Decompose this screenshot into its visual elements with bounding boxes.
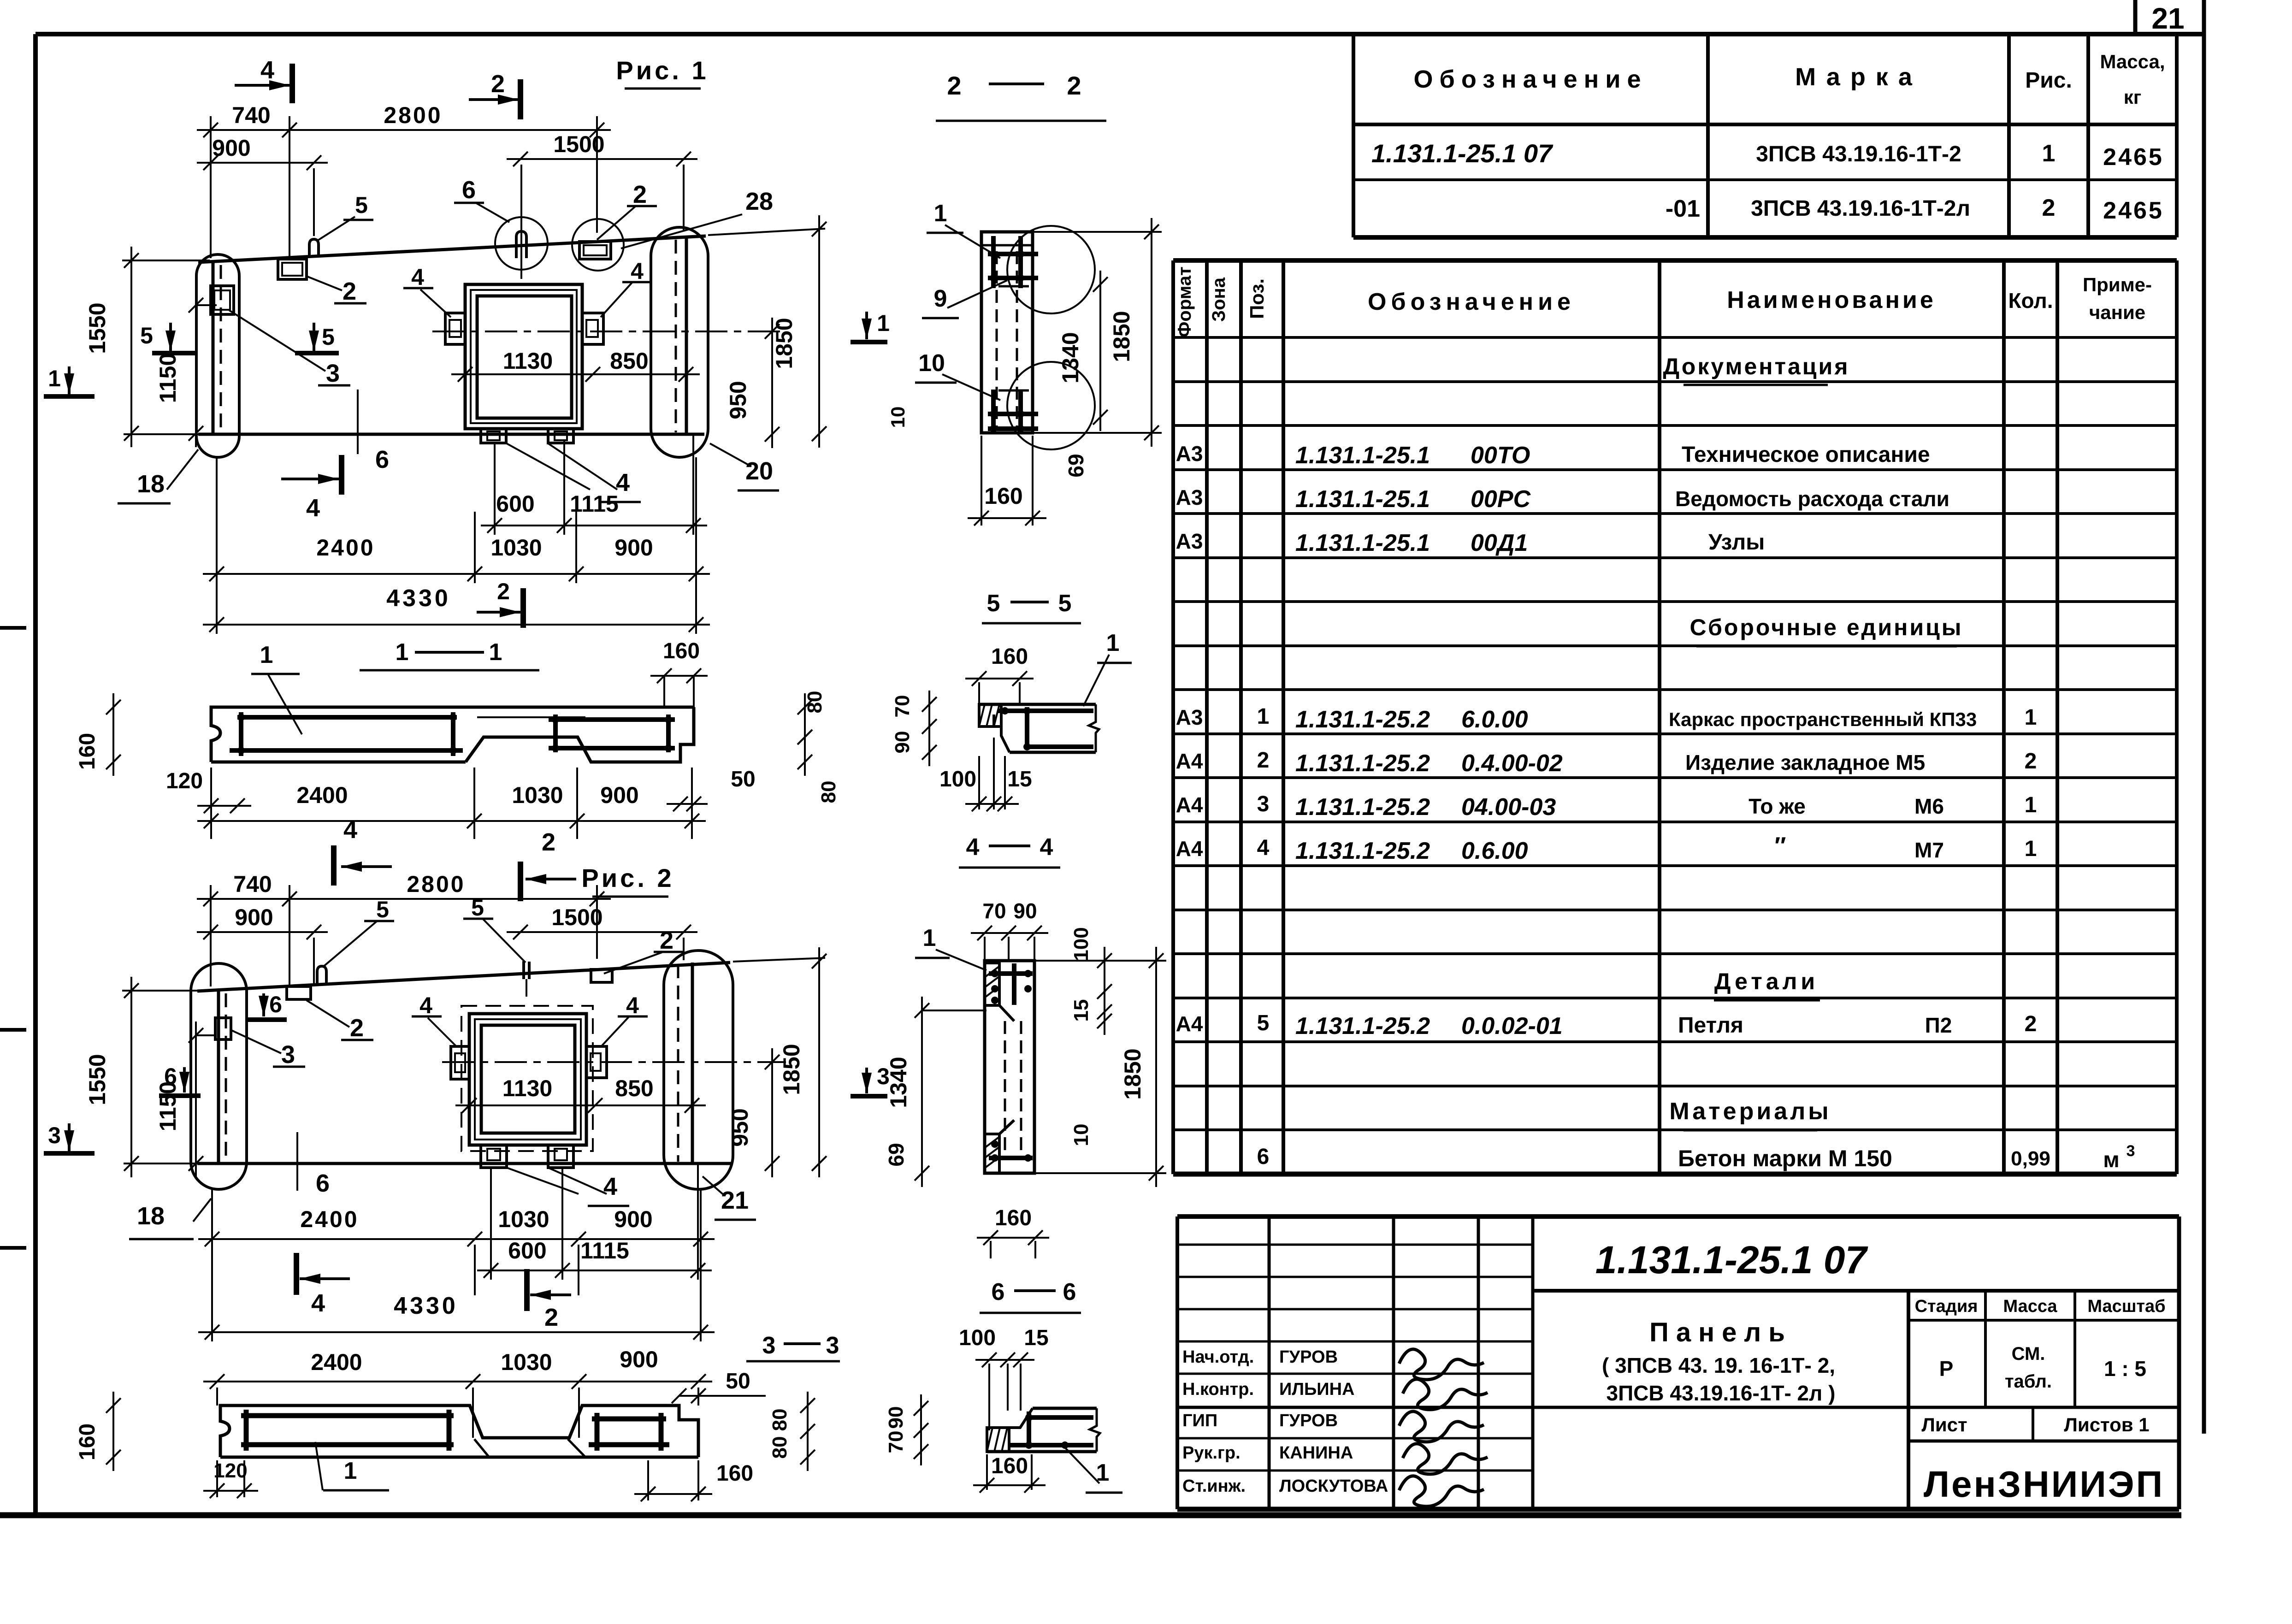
svg-text:Масса: Масса xyxy=(2003,1297,2057,1316)
svg-text:4: 4 xyxy=(411,264,424,290)
svg-text:15: 15 xyxy=(1007,767,1032,791)
svg-text:2: 2 xyxy=(2025,749,2037,774)
svg-text:кг: кг xyxy=(2124,86,2142,108)
svg-text:6: 6 xyxy=(462,176,476,204)
svg-text:6: 6 xyxy=(269,992,282,1017)
svg-text:1: 1 xyxy=(260,642,273,668)
svg-text:0.6.00: 0.6.00 xyxy=(1461,838,1528,864)
svg-text:90: 90 xyxy=(885,1406,907,1429)
svg-text:Документация: Документация xyxy=(1663,354,1850,379)
svg-text:3: 3 xyxy=(877,1063,890,1089)
svg-text:А3: А3 xyxy=(1176,529,1203,553)
svg-text:100: 100 xyxy=(1070,927,1093,961)
svg-text:2400: 2400 xyxy=(316,535,375,561)
svg-text:900: 900 xyxy=(600,782,638,808)
svg-text:160: 160 xyxy=(991,1454,1028,1478)
svg-text:600: 600 xyxy=(496,491,534,517)
svg-text:ЛенЗНИИЭП: ЛенЗНИИЭП xyxy=(1924,1464,2164,1505)
svg-text:А4: А4 xyxy=(1176,793,1203,817)
svg-text:Рис. 2: Рис. 2 xyxy=(581,863,674,892)
svg-text:3: 3 xyxy=(1257,792,1270,816)
svg-text:6.0.00: 6.0.00 xyxy=(1461,706,1528,733)
svg-text:СМ.: СМ. xyxy=(2012,1344,2045,1364)
svg-text:0.0.02-01: 0.0.02-01 xyxy=(1461,1013,1563,1039)
svg-text:69: 69 xyxy=(1064,454,1088,477)
svg-text:4330: 4330 xyxy=(394,1293,458,1319)
svg-text:М6: М6 xyxy=(1914,794,1944,818)
svg-text:1850: 1850 xyxy=(1109,311,1134,362)
svg-text:1.131.1-25.1: 1.131.1-25.1 xyxy=(1295,442,1430,469)
svg-text:160: 160 xyxy=(991,644,1028,669)
svg-text:То же: То же xyxy=(1749,794,1806,818)
svg-text:50: 50 xyxy=(731,767,755,791)
svg-text:18: 18 xyxy=(137,470,165,498)
svg-text:1850: 1850 xyxy=(1120,1048,1146,1099)
svg-text:1550: 1550 xyxy=(84,1054,110,1105)
svg-text:1850: 1850 xyxy=(771,318,797,369)
svg-text:Ведомость расхода стали: Ведомость расхода стали xyxy=(1675,487,1949,511)
svg-text:1: 1 xyxy=(2025,837,2037,861)
svg-text:740: 740 xyxy=(233,871,272,897)
svg-text:70: 70 xyxy=(982,899,1006,923)
svg-text:6: 6 xyxy=(992,1279,1005,1305)
svg-text:3: 3 xyxy=(826,1332,839,1359)
svg-text:1: 1 xyxy=(489,639,502,666)
svg-text:1550: 1550 xyxy=(84,302,110,354)
svg-text:1850: 1850 xyxy=(779,1044,804,1095)
svg-text:2: 2 xyxy=(544,1304,558,1331)
svg-text:160: 160 xyxy=(716,1461,753,1486)
svg-text:1.131.1-25.2: 1.131.1-25.2 xyxy=(1295,706,1430,733)
svg-text:Детали: Детали xyxy=(1714,968,1819,994)
svg-text:80: 80 xyxy=(768,1436,791,1459)
svg-text:( 3ПСВ 43. 19. 16-1Т- 2,: ( 3ПСВ 43. 19. 16-1Т- 2, xyxy=(1602,1353,1835,1377)
svg-text:1: 1 xyxy=(2025,705,2037,730)
svg-text:ИЛЬИНА: ИЛЬИНА xyxy=(1279,1380,1355,1399)
svg-text:1030: 1030 xyxy=(501,1349,552,1375)
svg-text:2: 2 xyxy=(491,70,505,98)
svg-text:10: 10 xyxy=(918,350,945,377)
svg-text:4: 4 xyxy=(631,258,644,284)
svg-text:3: 3 xyxy=(762,1332,776,1359)
svg-text:Ст.инж.: Ст.инж. xyxy=(1182,1476,1246,1496)
svg-text:18: 18 xyxy=(137,1202,165,1230)
svg-text:100: 100 xyxy=(959,1326,996,1350)
svg-text:ГУРОВ: ГУРОВ xyxy=(1279,1347,1338,1367)
svg-text:1.131.1-25.2: 1.131.1-25.2 xyxy=(1295,750,1430,777)
svg-text:740: 740 xyxy=(232,102,270,128)
svg-text:Петля: Петля xyxy=(1678,1013,1743,1038)
svg-text:4: 4 xyxy=(311,1289,325,1317)
svg-text:Нач.отд.: Нач.отд. xyxy=(1182,1347,1254,1367)
svg-text:69: 69 xyxy=(884,1143,908,1166)
svg-text:чание: чание xyxy=(2089,301,2145,323)
svg-text:Материалы: Материалы xyxy=(1669,1098,1831,1125)
svg-text:4: 4 xyxy=(419,992,432,1018)
svg-text:Узлы: Узлы xyxy=(1708,530,1765,555)
svg-text:90: 90 xyxy=(1013,899,1037,923)
svg-text:Сборочные единицы: Сборочные единицы xyxy=(1690,614,1963,640)
svg-text:4: 4 xyxy=(616,469,630,496)
svg-text:1.131.1-25.1 07: 1.131.1-25.1 07 xyxy=(1371,139,1554,168)
svg-text:950: 950 xyxy=(727,1108,753,1146)
svg-text:1.131.1-25.2: 1.131.1-25.2 xyxy=(1295,794,1430,821)
svg-text:21: 21 xyxy=(2151,2,2184,35)
svg-text:0.4.00-02: 0.4.00-02 xyxy=(1461,750,1563,777)
svg-text:3: 3 xyxy=(2127,1142,2135,1160)
svg-text:00Д1: 00Д1 xyxy=(1471,530,1528,556)
svg-text:Наименование: Наименование xyxy=(1727,287,1936,313)
svg-text:ГИП: ГИП xyxy=(1182,1411,1217,1430)
svg-text:2: 2 xyxy=(660,927,673,954)
svg-text:2465: 2465 xyxy=(2103,197,2164,224)
svg-text:Изделие закладное М5: Изделие закладное М5 xyxy=(1685,750,1925,774)
svg-text:1.131.1-25.1: 1.131.1-25.1 xyxy=(1295,486,1430,513)
svg-text:10: 10 xyxy=(1070,1124,1093,1146)
svg-text:3: 3 xyxy=(281,1041,295,1069)
svg-text:6: 6 xyxy=(375,446,389,473)
svg-text:2465: 2465 xyxy=(2103,144,2164,171)
svg-text:3: 3 xyxy=(48,1122,61,1148)
svg-text:Рук.гр.: Рук.гр. xyxy=(1182,1443,1241,1463)
svg-text:Масса,: Масса, xyxy=(2100,51,2165,72)
svg-text:1500: 1500 xyxy=(553,131,604,157)
svg-text:04.00-03: 04.00-03 xyxy=(1461,794,1556,821)
svg-text:Приме-: Приме- xyxy=(2083,274,2152,295)
svg-text:1130: 1130 xyxy=(502,1075,552,1101)
svg-text:Рис. 1: Рис. 1 xyxy=(616,56,709,85)
svg-text:КАНИНА: КАНИНА xyxy=(1279,1443,1353,1463)
svg-text:А4: А4 xyxy=(1176,837,1203,861)
svg-text:1: 1 xyxy=(396,639,409,666)
svg-text:1 : 5: 1 : 5 xyxy=(2104,1357,2146,1381)
svg-text:1150: 1150 xyxy=(155,353,181,403)
svg-text:Каркас пространственный КП33: Каркас пространственный КП33 xyxy=(1669,709,1977,730)
svg-text:600: 600 xyxy=(508,1238,546,1264)
svg-text:3: 3 xyxy=(326,360,340,387)
svg-text:Стадия: Стадия xyxy=(1915,1297,1978,1316)
svg-text:2400: 2400 xyxy=(311,1349,362,1375)
svg-text:5: 5 xyxy=(376,897,389,922)
svg-text:80: 80 xyxy=(803,691,826,714)
svg-text:2: 2 xyxy=(947,71,961,100)
svg-text:А4: А4 xyxy=(1176,1012,1203,1036)
svg-text:2: 2 xyxy=(343,278,356,305)
svg-text:1030: 1030 xyxy=(498,1206,549,1232)
svg-text:4: 4 xyxy=(1040,834,1053,861)
svg-text:15: 15 xyxy=(1024,1326,1048,1350)
svg-text:70: 70 xyxy=(885,1431,907,1453)
svg-text:3ПСВ 43.19.16-1Т-2л: 3ПСВ 43.19.16-1Т-2л xyxy=(1751,196,1970,221)
svg-text:Рис.: Рис. xyxy=(2025,68,2072,93)
svg-text:160: 160 xyxy=(75,1423,100,1460)
svg-text:1.131.1-25.1 07: 1.131.1-25.1 07 xyxy=(1595,1238,1868,1281)
svg-text:5: 5 xyxy=(140,323,153,348)
svg-text:Р: Р xyxy=(1939,1357,1954,1381)
svg-text:1.131.1-25.1: 1.131.1-25.1 xyxy=(1295,530,1430,556)
svg-text:900: 900 xyxy=(620,1346,658,1372)
svg-text:Лист: Лист xyxy=(1921,1414,1967,1435)
svg-text:4: 4 xyxy=(603,1173,617,1200)
svg-text:2: 2 xyxy=(350,1014,364,1042)
svg-text:70: 70 xyxy=(891,695,914,718)
svg-text:2: 2 xyxy=(542,828,555,856)
svg-text:м: м xyxy=(2103,1148,2120,1172)
svg-text:1: 1 xyxy=(2025,793,2037,817)
svg-text:П2: П2 xyxy=(1925,1013,1952,1037)
svg-text:Кол.: Кол. xyxy=(2008,289,2053,313)
svg-text:Листов 1: Листов 1 xyxy=(2064,1414,2149,1435)
svg-text:А3: А3 xyxy=(1176,705,1203,729)
svg-text:900: 900 xyxy=(212,135,250,161)
svg-text:160: 160 xyxy=(663,639,700,663)
svg-text:4330: 4330 xyxy=(386,585,451,612)
svg-text:3ПСВ 43.19.16-1Т- 2л ): 3ПСВ 43.19.16-1Т- 2л ) xyxy=(1607,1381,1836,1405)
svg-text:Поз.: Поз. xyxy=(1246,278,1268,319)
svg-text:50: 50 xyxy=(726,1369,750,1394)
svg-text:Формат: Формат xyxy=(1175,266,1195,337)
svg-text:2: 2 xyxy=(2025,1012,2037,1036)
svg-text:2400: 2400 xyxy=(296,782,348,808)
svg-text:1030: 1030 xyxy=(512,782,563,808)
svg-text:4: 4 xyxy=(966,834,980,861)
svg-text:100: 100 xyxy=(939,767,976,791)
svg-text:160: 160 xyxy=(984,483,1022,509)
svg-text:2: 2 xyxy=(1257,748,1270,773)
svg-text:90: 90 xyxy=(891,731,914,754)
svg-text:5: 5 xyxy=(355,192,368,218)
svg-text:Бетон марки М 150: Бетон марки М 150 xyxy=(1678,1146,1892,1171)
svg-text:2800: 2800 xyxy=(384,102,442,128)
svg-text:21: 21 xyxy=(721,1187,749,1214)
svg-text:2800: 2800 xyxy=(407,871,465,897)
svg-text:2: 2 xyxy=(1067,71,1081,100)
svg-text:Панель: Панель xyxy=(1649,1317,1792,1347)
svg-text:1115: 1115 xyxy=(580,1238,629,1264)
svg-text:4: 4 xyxy=(260,56,274,84)
svg-text:10: 10 xyxy=(887,407,909,428)
svg-text:1: 1 xyxy=(2042,140,2056,167)
svg-text:табл.: табл. xyxy=(2005,1371,2052,1392)
svg-text:6: 6 xyxy=(1063,1279,1076,1305)
svg-text:1: 1 xyxy=(1106,630,1120,656)
svg-text:5: 5 xyxy=(471,895,484,921)
svg-text:Техническое описание: Техническое описание xyxy=(1682,443,1930,467)
svg-text:Марка: Марка xyxy=(1795,63,1922,91)
svg-text:Н.контр.: Н.контр. xyxy=(1182,1380,1254,1399)
svg-text:160: 160 xyxy=(75,733,100,770)
svg-text:950: 950 xyxy=(725,381,751,419)
svg-text:6: 6 xyxy=(164,1063,177,1089)
svg-text:1500: 1500 xyxy=(551,904,603,930)
svg-text:2400: 2400 xyxy=(300,1206,359,1232)
svg-text:ГУРОВ: ГУРОВ xyxy=(1279,1411,1338,1430)
svg-text:15: 15 xyxy=(1070,999,1093,1022)
svg-text:900: 900 xyxy=(614,535,653,561)
svg-text:120: 120 xyxy=(166,769,203,793)
svg-text:900: 900 xyxy=(235,904,273,930)
svg-text:1.131.1-25.2: 1.131.1-25.2 xyxy=(1295,838,1430,864)
svg-text:А4: А4 xyxy=(1176,749,1203,773)
svg-text:2: 2 xyxy=(633,181,647,208)
svg-text:5: 5 xyxy=(1058,590,1072,617)
svg-text:1340: 1340 xyxy=(1057,332,1083,383)
svg-text:Масштаб: Масштаб xyxy=(2087,1297,2165,1316)
svg-text:160: 160 xyxy=(995,1206,1032,1230)
svg-text:00РС: 00РС xyxy=(1471,486,1531,513)
svg-text:0,99: 0,99 xyxy=(2011,1147,2050,1170)
svg-text:4: 4 xyxy=(1257,836,1270,860)
svg-text:1.131.1-25.2: 1.131.1-25.2 xyxy=(1295,1013,1430,1039)
svg-text:5: 5 xyxy=(1257,1011,1270,1035)
svg-text:5: 5 xyxy=(322,324,335,350)
svg-text:900: 900 xyxy=(614,1206,652,1232)
svg-text:А3: А3 xyxy=(1176,485,1203,509)
svg-text:1030: 1030 xyxy=(490,535,542,561)
svg-text:-01: -01 xyxy=(1666,195,1700,222)
svg-text:2: 2 xyxy=(2042,195,2056,221)
svg-text:1: 1 xyxy=(877,310,890,336)
svg-text:Обозначение: Обозначение xyxy=(1368,289,1575,315)
svg-text:1130: 1130 xyxy=(503,348,553,374)
svg-text:6: 6 xyxy=(316,1169,330,1197)
svg-text:3ПСВ 43.19.16-1Т-2: 3ПСВ 43.19.16-1Т-2 xyxy=(1756,142,1961,166)
svg-text:4: 4 xyxy=(626,992,639,1018)
svg-text:00ТО: 00ТО xyxy=(1471,442,1530,469)
svg-text:Обозначение: Обозначение xyxy=(1413,65,1647,93)
svg-text:850: 850 xyxy=(615,1075,653,1101)
svg-text:80: 80 xyxy=(768,1409,791,1431)
svg-text:А3: А3 xyxy=(1176,442,1203,466)
svg-text:9: 9 xyxy=(934,285,947,312)
svg-text:1: 1 xyxy=(923,925,936,951)
svg-text:1: 1 xyxy=(48,366,61,391)
svg-text:2: 2 xyxy=(497,579,510,604)
svg-text:1: 1 xyxy=(344,1458,357,1484)
svg-text:850: 850 xyxy=(610,348,648,374)
svg-text:20: 20 xyxy=(745,457,773,485)
svg-text:6: 6 xyxy=(1257,1145,1270,1169)
svg-text:5: 5 xyxy=(987,590,1000,617)
svg-text:4: 4 xyxy=(306,494,320,522)
svg-text:80: 80 xyxy=(817,781,840,803)
svg-text:ЛОСКУТОВА: ЛОСКУТОВА xyxy=(1279,1476,1388,1496)
svg-text:1: 1 xyxy=(1257,704,1270,729)
svg-text:″: ″ xyxy=(1775,833,1786,859)
svg-text:Зона: Зона xyxy=(1209,277,1229,322)
svg-text:М7: М7 xyxy=(1914,838,1944,862)
svg-text:1: 1 xyxy=(934,200,947,227)
svg-text:28: 28 xyxy=(745,188,773,215)
svg-text:120: 120 xyxy=(213,1459,247,1482)
